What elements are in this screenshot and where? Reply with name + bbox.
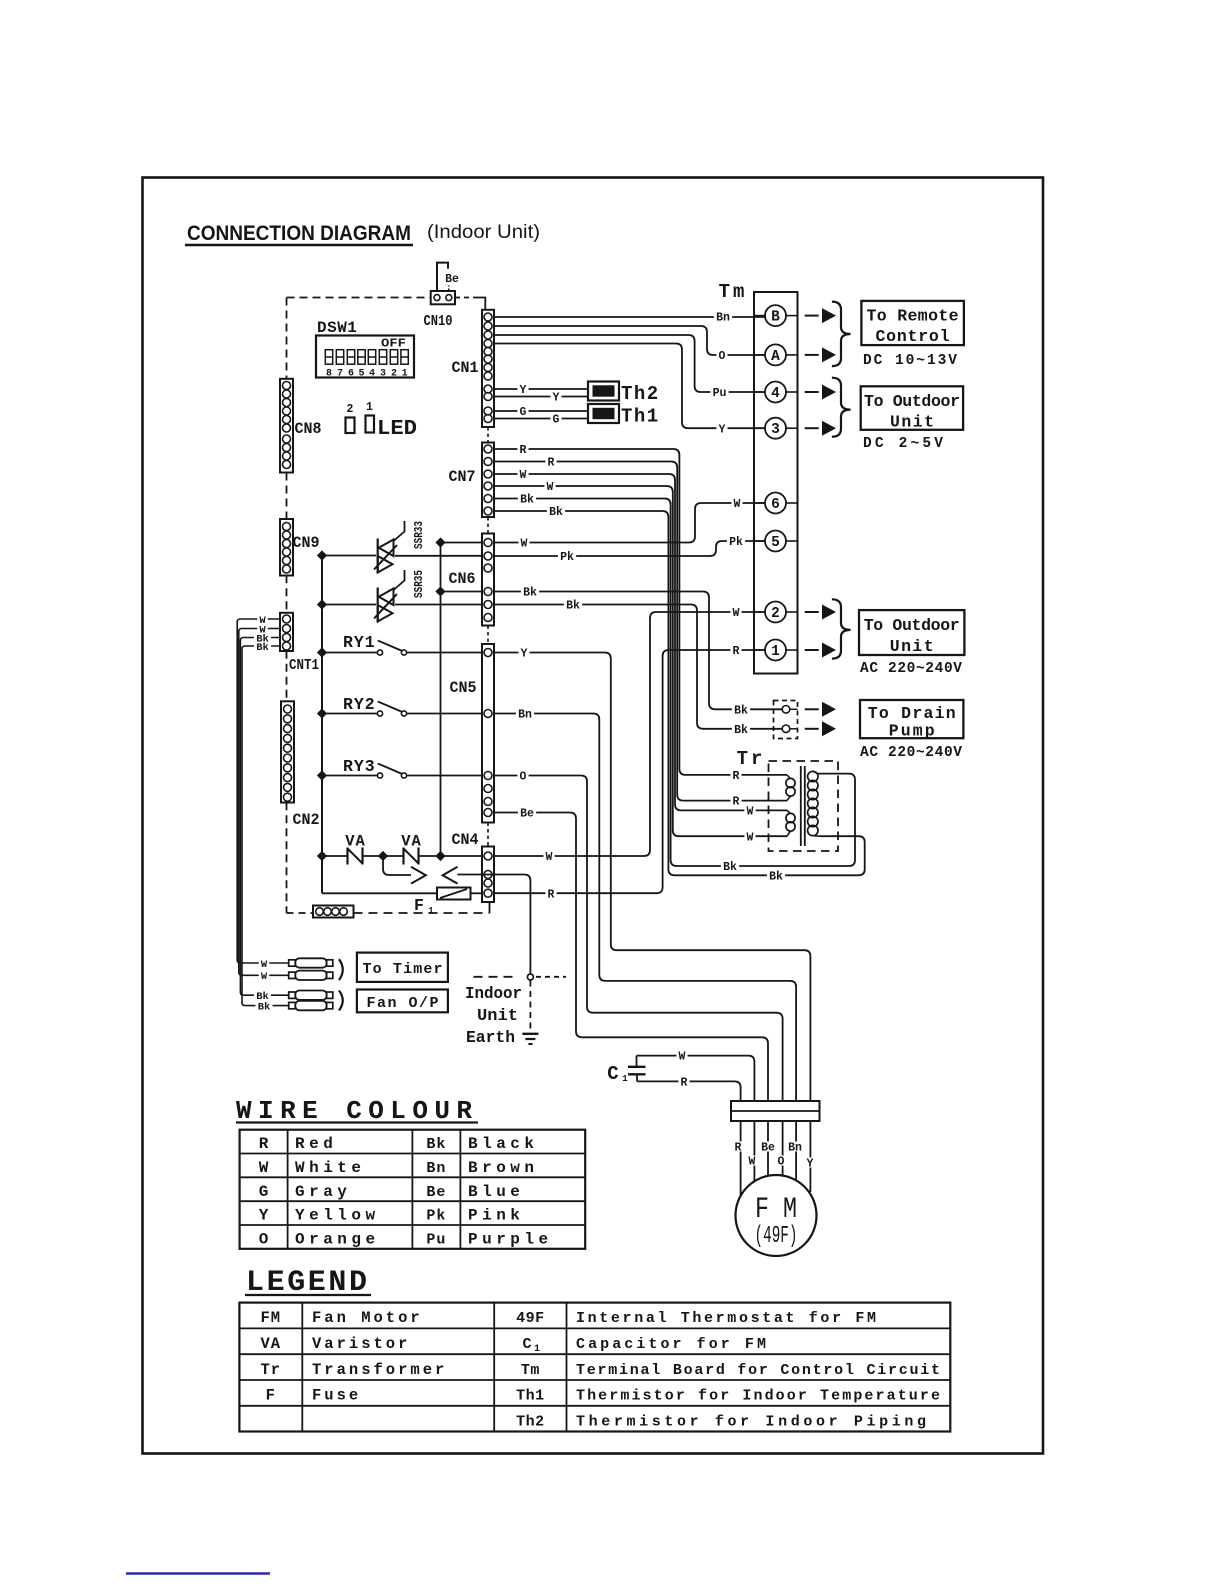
svg-text:Fan O/P: Fan O/P	[367, 995, 439, 1012]
wire Bk CNT1 to fan plug 1	[240, 638, 288, 996]
svg-text:RY1: RY1	[343, 633, 376, 652]
wire Bk CN6 to drain pump 2	[494, 605, 782, 729]
junction dots	[318, 551, 327, 560]
svg-text:Th2: Th2	[621, 383, 660, 405]
svg-text:Th1: Th1	[621, 406, 660, 428]
relay RY3	[322, 757, 482, 778]
connector CN8	[280, 379, 293, 473]
wire Y CN1 to terminal 3	[494, 344, 765, 429]
svg-text:To Drain: To Drain	[868, 704, 956, 723]
svg-text:Be: Be	[426, 1184, 446, 1201]
arrow to outdoor unit 2	[805, 611, 819, 613]
svg-text:1: 1	[428, 906, 434, 916]
arrow to outdoor unit 3	[805, 427, 819, 429]
triac SSR35	[322, 570, 482, 622]
svg-text:Varistor: Varistor	[312, 1335, 410, 1353]
plug fan 1	[289, 992, 296, 998]
connector CN9	[280, 519, 293, 576]
svg-text:Red: Red	[295, 1135, 337, 1153]
svg-text:3: 3	[771, 422, 780, 438]
svg-text:Yellow: Yellow	[295, 1207, 380, 1225]
box To Drain Pump	[860, 700, 963, 741]
svg-text:AC 220~240V: AC 220~240V	[860, 661, 962, 677]
LEGEND title	[245, 1266, 371, 1300]
svg-text:Bk: Bk	[769, 870, 783, 883]
svg-text:Y: Y	[521, 648, 528, 661]
svg-text:W: W	[546, 851, 553, 864]
svg-text:3: 3	[380, 369, 386, 380]
svg-text:Fan Motor: Fan Motor	[312, 1309, 423, 1327]
svg-text:5: 5	[358, 369, 364, 380]
indoor unit earth node and symbol	[474, 974, 567, 1044]
svg-text:Purple: Purple	[468, 1231, 553, 1249]
svg-text:G: G	[553, 414, 560, 427]
wire W CNT1 to timer plug 2	[239, 629, 289, 976]
brace remote control	[832, 302, 851, 367]
capacitor C1	[607, 1056, 645, 1085]
fan motor connector bar	[731, 1101, 820, 1121]
svg-text:Unit: Unit	[890, 637, 934, 656]
svg-text:White: White	[295, 1159, 366, 1177]
svg-text:(Indoor Unit): (Indoor Unit)	[427, 222, 540, 243]
fan motor FM (49F)	[736, 1175, 817, 1256]
svg-text:To Outdoor: To Outdoor	[864, 616, 960, 635]
svg-text:W: W	[733, 607, 740, 620]
svg-text:CN9: CN9	[293, 534, 320, 552]
svg-text:Bk: Bk	[256, 642, 269, 654]
svg-text:Blue: Blue	[468, 1183, 524, 1201]
drain pump connector	[774, 701, 798, 739]
svg-text:G: G	[259, 1183, 269, 1201]
svg-text:Gray: Gray	[295, 1183, 351, 1201]
svg-text:Bk: Bk	[723, 861, 737, 874]
svg-text:Tm: Tm	[719, 281, 748, 303]
svg-text:2: 2	[391, 369, 397, 380]
svg-text:R: R	[733, 796, 740, 809]
svg-text:Tr: Tr	[737, 748, 766, 770]
svg-text:F M: F M	[755, 1193, 797, 1227]
connector CN6	[482, 534, 494, 626]
box To Timer	[357, 953, 448, 982]
svg-text:Y: Y	[807, 1158, 814, 1171]
triac SSR33	[322, 521, 482, 573]
legend table	[239, 1303, 950, 1432]
svg-text:DSW1: DSW1	[317, 319, 357, 337]
wire CN1 to Th2 (Y)	[494, 388, 588, 390]
svg-text:6: 6	[771, 497, 780, 513]
PCB dashed boundary left edge	[286, 298, 288, 379]
svg-text:Transformer: Transformer	[312, 1361, 447, 1379]
svg-text:49F: 49F	[516, 1310, 545, 1327]
connector on PCB bottom edge	[313, 906, 354, 918]
wire Bk CNT1 to fan plug 2	[242, 646, 289, 1006]
dash-dot from CN10 to CN1	[455, 297, 477, 299]
plug fan 2	[289, 1002, 296, 1008]
connector CN7	[482, 443, 494, 518]
svg-text:Th2: Th2	[516, 1413, 545, 1430]
varistor VA 1	[322, 833, 404, 865]
wire Bk CN6 to drain pump 1	[494, 592, 782, 710]
svg-text:(49F): (49F)	[755, 1223, 798, 1250]
svg-text:Pu: Pu	[426, 1232, 446, 1249]
wire Be CN5 to fan motor	[494, 813, 768, 1102]
svg-text:R: R	[548, 457, 555, 470]
brace outdoor unit ac	[832, 599, 851, 658]
svg-text:Th1: Th1	[516, 1388, 545, 1405]
transformer core	[800, 766, 802, 846]
svg-text:Terminal Board for Control Cir: Terminal Board for Control Circuit	[576, 1362, 940, 1379]
svg-text:R: R	[733, 645, 740, 658]
svg-text:Pink: Pink	[468, 1207, 524, 1225]
svg-text:Bk: Bk	[549, 506, 563, 519]
svg-text:W: W	[747, 831, 754, 844]
svg-text:CN5: CN5	[450, 679, 477, 697]
connector CN5	[482, 644, 494, 823]
svg-text:R: R	[681, 1077, 688, 1090]
svg-text:W: W	[520, 469, 527, 482]
varistor VA 2	[401, 833, 482, 865]
svg-text:Unit: Unit	[890, 413, 934, 432]
svg-text:W: W	[734, 498, 741, 511]
svg-text:Y: Y	[719, 423, 726, 436]
bracket timer plugs	[339, 959, 343, 980]
wire CN6 pin1 link	[441, 542, 483, 544]
PCB dashed boundary bottom edge	[286, 908, 288, 913]
svg-text:SSR35: SSR35	[412, 570, 426, 598]
svg-text:Orange: Orange	[295, 1231, 380, 1249]
wire Bn CN1 to terminal B	[494, 316, 765, 318]
thermistor Th2	[588, 382, 660, 406]
svg-text:1: 1	[622, 1074, 628, 1084]
vertical link CN6 pins to VA wire	[440, 543, 442, 857]
svg-text:C: C	[607, 1063, 618, 1085]
svg-text:4: 4	[369, 369, 375, 380]
svg-text:CN8: CN8	[295, 420, 322, 438]
relay RY2	[322, 695, 482, 716]
svg-text:CN2: CN2	[293, 811, 320, 829]
arrow to drain pump 2	[805, 728, 819, 730]
wire Bn CN5 to fan motor	[494, 714, 796, 1102]
svg-text:To Timer: To Timer	[363, 961, 443, 978]
connector CN2	[281, 701, 294, 802]
PCB dashed boundary top edge	[287, 297, 431, 299]
svg-text:Tm: Tm	[521, 1362, 540, 1379]
svg-text:R: R	[259, 1135, 269, 1153]
svg-text:Bk: Bk	[520, 494, 534, 507]
WIRE COLOUR title	[236, 1096, 478, 1126]
svg-text:W: W	[261, 959, 268, 971]
svg-text:W: W	[259, 1159, 269, 1177]
connector CNT1	[280, 613, 293, 651]
svg-text:4: 4	[771, 386, 780, 402]
connector CN4	[482, 847, 494, 903]
wire R capacitor to fan motor	[637, 1081, 741, 1101]
svg-text:Be: Be	[761, 1142, 775, 1155]
svg-text:1: 1	[771, 644, 780, 660]
transformer secondary coil	[808, 771, 820, 836]
box To Outdoor Unit DC	[861, 386, 963, 431]
arrow to remote control B	[805, 315, 819, 317]
svg-text:Tr: Tr	[260, 1361, 281, 1379]
svg-text:F: F	[414, 896, 424, 915]
svg-text:W: W	[679, 1051, 686, 1064]
svg-text:B: B	[771, 310, 780, 326]
svg-text:1: 1	[402, 369, 408, 380]
svg-text:A: A	[771, 349, 780, 365]
svg-text:2: 2	[347, 403, 354, 416]
terminal board Tm	[719, 281, 798, 674]
brace outdoor unit dc	[832, 378, 851, 437]
svg-text:5: 5	[771, 535, 780, 551]
wire Y CN5 to fan motor	[494, 653, 810, 1102]
svg-text:OFF: OFF	[381, 337, 406, 351]
svg-text:Black: Black	[468, 1135, 539, 1153]
svg-text:VA: VA	[260, 1335, 281, 1353]
wire Bk CN7 to transformer secondary top	[494, 499, 855, 867]
wire W CN6 to terminal 6	[494, 503, 765, 543]
svg-text:Y: Y	[259, 1207, 269, 1225]
svg-text:C: C	[522, 1336, 531, 1353]
plug to timer 1	[289, 960, 296, 966]
vertical supply bus	[321, 556, 323, 894]
svg-text:Bn: Bn	[716, 312, 730, 325]
svg-text:F: F	[266, 1387, 276, 1405]
svg-text:1: 1	[534, 1344, 540, 1355]
svg-text:Y: Y	[520, 384, 527, 397]
svg-text:O: O	[778, 1156, 785, 1169]
wire W capacitor to fan motor	[637, 1056, 755, 1101]
svg-text:Bn: Bn	[518, 709, 532, 722]
LED indicators	[346, 401, 418, 441]
svg-text:RY2: RY2	[343, 695, 376, 714]
arrow to outdoor unit 1	[805, 649, 819, 651]
svg-text:RY3: RY3	[343, 757, 376, 776]
box Fan O/P	[357, 990, 448, 1013]
svg-text:CN7: CN7	[449, 468, 476, 486]
relay RY1	[322, 633, 482, 655]
svg-text:R: R	[733, 770, 740, 783]
fuse F1	[322, 888, 482, 917]
svg-text:CN10: CN10	[424, 314, 453, 330]
svg-text:FM: FM	[260, 1309, 281, 1327]
box To Outdoor Unit AC	[859, 610, 964, 656]
svg-text:Bk: Bk	[734, 704, 748, 717]
fan motor lead wires	[740, 1121, 742, 1199]
box To Remote Control	[861, 301, 964, 346]
svg-text:Pk: Pk	[560, 551, 574, 564]
svg-text:7: 7	[337, 369, 343, 380]
svg-text:Bk: Bk	[426, 1136, 446, 1153]
svg-text:8: 8	[326, 369, 332, 380]
svg-text:Pk: Pk	[729, 536, 743, 549]
svg-text:Indoor: Indoor	[465, 985, 522, 1004]
svg-text:W: W	[749, 1156, 756, 1169]
svg-text:O: O	[259, 1231, 269, 1249]
svg-text:Bn: Bn	[426, 1160, 446, 1177]
bracket fan plugs	[339, 991, 343, 1011]
wire R CN4 to terminal 1	[494, 650, 765, 893]
svg-text:6: 6	[348, 369, 354, 380]
wire Pu CN1 to terminal 4	[494, 335, 765, 392]
wire R CN7 to transformer primary 2	[494, 462, 787, 801]
svg-text:Be: Be	[445, 273, 459, 286]
page border frame	[143, 178, 1044, 1454]
wire Bk CN7 to transformer secondary bottom	[494, 511, 865, 875]
wire R CN7 to transformer primary 1	[494, 449, 787, 775]
connector CN1	[482, 310, 494, 427]
svg-text:Bk: Bk	[523, 587, 537, 600]
wire O CN1 to terminal A	[494, 326, 765, 355]
svg-text:Fuse: Fuse	[312, 1387, 361, 1405]
thermistor Th1	[588, 404, 660, 428]
svg-text:Bk: Bk	[258, 1001, 271, 1013]
wire W CN4 to terminal 2	[494, 612, 765, 856]
svg-text:W: W	[521, 538, 528, 551]
svg-text:Pu: Pu	[713, 387, 727, 400]
wire CN1 to Th1 (G)	[494, 410, 588, 412]
transformer dashed body	[769, 761, 839, 851]
svg-text:CNT1: CNT1	[289, 657, 319, 674]
svg-text:CN6: CN6	[449, 570, 476, 588]
svg-text:W: W	[547, 481, 554, 494]
wire O CN5 to fan motor	[494, 776, 783, 1102]
blue pen mark bottom left	[126, 1572, 270, 1575]
svg-text:AC 220~240V: AC 220~240V	[860, 745, 962, 761]
svg-text:Bn: Bn	[788, 1142, 802, 1155]
svg-text:R: R	[735, 1142, 742, 1155]
svg-text:Be: Be	[520, 808, 534, 821]
svg-text:O: O	[520, 771, 527, 784]
wire Pk CN6 to terminal 5	[494, 541, 765, 556]
transformer primary coils	[786, 775, 795, 836]
svg-text:1: 1	[366, 401, 373, 414]
svg-text:Earth: Earth	[466, 1029, 515, 1048]
wire CN4 earth branch	[483, 875, 530, 975]
svg-text:Brown: Brown	[468, 1159, 539, 1177]
arrow to outdoor unit 4	[805, 391, 819, 393]
wire hook above CN10	[437, 263, 448, 291]
svg-text:CN1: CN1	[452, 359, 479, 377]
wire W CNT1 to timer plug 1	[237, 619, 289, 963]
title CONNECTION DIAGRAM	[185, 221, 413, 245]
svg-text:R: R	[548, 888, 555, 901]
svg-text:G: G	[520, 406, 527, 419]
svg-text:W: W	[261, 971, 268, 983]
arrow to remote control A	[805, 354, 819, 356]
svg-text:To Outdoor: To Outdoor	[864, 392, 960, 411]
wire CN6 pin4 link	[441, 591, 483, 593]
plug to timer 2	[289, 972, 296, 978]
svg-text:Y: Y	[553, 392, 560, 405]
dip switch DSW1	[316, 319, 414, 380]
arrow to drain pump 1	[805, 708, 819, 710]
svg-text:2: 2	[771, 606, 780, 622]
svg-text:Control: Control	[876, 327, 950, 346]
disconnect arrows between varistor branch and CN4	[383, 856, 482, 884]
svg-text:LED: LED	[377, 418, 417, 441]
svg-text:DC 10~13V: DC 10~13V	[863, 353, 957, 369]
dashed links between connectors on strip	[487, 427, 489, 443]
svg-text:Bk: Bk	[566, 600, 580, 613]
svg-text:To Remote: To Remote	[867, 307, 959, 326]
connector CN10	[431, 291, 455, 304]
svg-text:O: O	[719, 350, 726, 363]
wire colour table	[240, 1130, 586, 1249]
svg-text:CONNECTION DIAGRAM: CONNECTION DIAGRAM	[187, 221, 411, 245]
svg-text:R: R	[520, 444, 527, 457]
svg-text:CN4: CN4	[452, 831, 479, 849]
svg-text:Bk: Bk	[734, 724, 748, 737]
svg-text:Unit: Unit	[477, 1007, 518, 1026]
svg-text:Pk: Pk	[426, 1208, 446, 1225]
svg-text:W: W	[747, 806, 754, 819]
wire W CN7 to transformer primary 3	[494, 474, 787, 810]
svg-text:SSR33: SSR33	[412, 521, 426, 549]
wire W CN7 to transformer primary 4	[494, 486, 787, 836]
